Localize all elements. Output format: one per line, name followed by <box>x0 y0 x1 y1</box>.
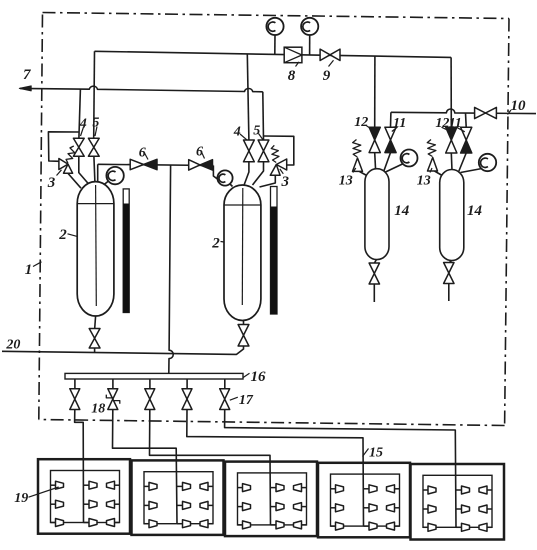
wire: routing valve3 to box3 <box>150 410 271 525</box>
wire: gauge connector right tank 14 <box>461 169 483 173</box>
svg-text:9: 9 <box>323 68 331 84</box>
wire: routing valve1 to box1 <box>75 410 84 523</box>
wire: transfer line 6 between vessel domes <box>98 164 214 165</box>
svg-text:7: 7 <box>23 67 31 83</box>
wire: relief loop right vessel <box>263 136 293 165</box>
pressure gauge left (on header) <box>266 18 283 35</box>
wire: valve12R bottom into right tank 14 <box>450 153 453 171</box>
gauge on left tank 14 <box>401 150 418 167</box>
valve 4 (right vessel) <box>244 140 255 151</box>
compartment box 3 outer wall <box>225 462 317 536</box>
pressure reducer 8 <box>284 47 302 63</box>
svg-text:19: 19 <box>14 491 28 506</box>
gauge on left vessel 2 <box>106 167 123 184</box>
wire: header T drop to valve 4 (right vessel) <box>247 54 249 140</box>
relief valve 3 (left vessel) <box>59 159 68 170</box>
wire: valve5L bottom / dip tube into left vessel <box>94 156 96 200</box>
wire: right tank 14 outlet open pipe <box>448 284 450 302</box>
wire: outlet line 10 with jump-over <box>391 109 536 114</box>
valve 12 (left pair, upper disc filled) <box>369 127 380 140</box>
svg-text:8: 8 <box>288 68 296 84</box>
wire: routing valve5 to box5 (line 15) <box>225 410 456 528</box>
spring of relief 13 right <box>427 140 436 157</box>
wire: header right corner drop to valve 12 (right pair) <box>450 57 452 127</box>
wire: left vessel bottom stem to valve <box>94 316 97 329</box>
svg-text:13: 13 <box>417 174 431 189</box>
enclosure boundary frame (dash-dot) <box>43 13 510 19</box>
manifold valve 3 <box>145 389 155 399</box>
wire: line 6 left corner down to left vessel dome <box>97 164 99 182</box>
svg-text:5: 5 <box>92 116 99 131</box>
relief valve 13 (right tank) <box>428 158 438 172</box>
compartment box 5 inner pipe loop <box>423 475 492 527</box>
wire: valve5R bottom to right vessel dome <box>253 162 264 185</box>
wire: valve11L bottom into left tank 14 <box>384 153 391 172</box>
valve 4 (left vessel) <box>73 138 84 147</box>
valve 5 (left vessel) <box>88 138 99 147</box>
level gauge column left vessel <box>123 189 129 313</box>
wire: drain line 20 <box>2 349 244 354</box>
svg-text:14: 14 <box>394 203 410 219</box>
svg-text:10: 10 <box>511 98 527 114</box>
wire: routing valve2 to box2 <box>113 410 178 524</box>
valve 5 (right vessel) <box>258 140 269 151</box>
compartment box 1 spray nozzles <box>51 481 120 526</box>
tank 14 (right auxiliary cylinder) <box>440 170 464 261</box>
compartment box 4 spray nozzles <box>331 485 400 530</box>
compartment box 2 outer wall <box>132 460 224 535</box>
compartment box 4 inner pipe loop <box>331 474 400 526</box>
manifold valve 5 (item 17) <box>220 389 230 399</box>
wire: relief loop left vessel <box>48 132 79 162</box>
valve 11 (right pair, lower disc filled) <box>461 127 472 140</box>
wire: gauge connector left tank 14 <box>386 164 404 173</box>
svg-text:16: 16 <box>251 369 267 385</box>
svg-text:15: 15 <box>369 446 383 461</box>
label leader ticks <box>29 60 512 497</box>
svg-text:12: 12 <box>354 115 368 130</box>
spring of relief valve 3 left <box>66 146 75 163</box>
gauge on right tank 14 <box>479 154 496 171</box>
wire: gauge stem left <box>274 35 276 55</box>
vessel 2 (right main extinguishant tank) <box>224 185 261 320</box>
pressure gauge right (on header) <box>301 18 318 35</box>
manifold valve 1 <box>70 389 80 399</box>
svg-text:3: 3 <box>281 174 290 190</box>
svg-text:2: 2 <box>211 236 220 252</box>
wire: left tank 14 outlet open pipe <box>373 284 375 302</box>
svg-text:2: 2 <box>58 227 67 243</box>
wire: right tank 14 bottom stem <box>449 261 452 264</box>
compartment box 4 outer wall <box>318 463 410 538</box>
drain valve under left vessel <box>89 329 100 339</box>
wire: line 6 right corner down toward right vessel gauge <box>213 166 220 182</box>
wire: line 10 corner drop to valve 11 (left pair) <box>390 112 392 127</box>
wire: vent line 7 with jump-overs <box>20 86 263 92</box>
svg-text:12: 12 <box>435 116 449 131</box>
spring of relief 13 left <box>353 140 361 158</box>
wire: valve11R bottom into right tank 14 <box>459 153 467 172</box>
svg-text:20: 20 <box>5 338 20 353</box>
compartment box 2 spray nozzles <box>144 482 213 527</box>
compartment box 5 spray nozzles <box>423 486 492 531</box>
wire: routing valve4 to box4 <box>187 410 364 527</box>
wire: line 10 T drop to valve 11 (right pair) <box>465 113 468 127</box>
wire: relief valve 3R outlet to dome <box>260 175 276 187</box>
wire: right vessel bottom stem to valve <box>243 321 245 325</box>
vessel 2 (left main extinguishant tank) <box>77 182 114 316</box>
compartment box 3 spray nozzles <box>238 484 307 529</box>
arrowhead on line 7 <box>19 86 31 91</box>
wire: relief valve 3L outlet diagonal to dome <box>68 173 81 188</box>
outlet valve under right tank 14 <box>444 263 454 274</box>
svg-text:18: 18 <box>91 402 105 417</box>
wire: header T drop to valve 12 (left pair) <box>374 56 376 127</box>
compartment box 2 inner pipe loop <box>144 472 213 524</box>
wire: valve12L bottom into left tank 14 <box>374 153 377 170</box>
wire: center feed from line 6 down to manifold with jump at line 20 <box>169 165 173 373</box>
wire: gauge connector right vessel <box>229 183 233 187</box>
relief valve 3 (right vessel) <box>276 159 286 170</box>
wire: gauge stem right <box>309 35 311 56</box>
wire: left vessel drain valve stem to line 20 <box>94 348 96 353</box>
dip tube right vessel <box>241 188 244 305</box>
outlet valve under left tank 14 <box>369 263 379 274</box>
wire: header left drop to valve 5 (left vessel) <box>93 51 96 138</box>
wire: relief 13L to left tank 14 <box>360 172 369 177</box>
svg-text:14: 14 <box>467 203 483 219</box>
check valve 6 (right) <box>189 160 200 170</box>
wire: manifold valve stems from distributor bar <box>74 379 76 389</box>
gauge on right vessel 2 <box>217 170 232 185</box>
compartment box 1 inner pipe loop <box>51 471 120 523</box>
tank 14 (left auxiliary cylinder) <box>365 169 389 260</box>
valve 9 <box>320 49 330 60</box>
relief valve 13 (left tank) <box>353 158 363 171</box>
wire: valve4R bottom to right vessel dome <box>244 162 249 187</box>
svg-text:13: 13 <box>339 174 353 189</box>
wire: left tank 14 bottom stem <box>374 260 376 264</box>
dip tube left vessel <box>95 185 98 306</box>
svg-text:4: 4 <box>233 125 241 140</box>
distributor bar 16 <box>65 373 243 379</box>
check valve 6 (left) <box>130 159 143 169</box>
wire: relief 13R to right tank 14 <box>435 171 444 176</box>
manifold valve 2 (item 18, with lever) <box>108 389 118 399</box>
svg-text:1: 1 <box>25 262 33 278</box>
compartment box 3 inner pipe loop <box>238 473 307 525</box>
svg-text:5: 5 <box>253 124 260 139</box>
spring of relief valve 3 right <box>271 145 279 162</box>
valve 12 (right pair, upper disc filled) <box>446 127 457 140</box>
wire: gauge connector left vessel <box>104 181 109 185</box>
compartment box 5 outer wall <box>411 464 505 540</box>
level gauge column right vessel <box>271 187 278 315</box>
svg-text:17: 17 <box>239 393 254 408</box>
valve 11 (left pair, lower disc filled) <box>385 127 396 140</box>
compartment box 1 outer wall <box>38 459 130 534</box>
item number labels <box>5 67 526 506</box>
wire: line 7 T drop to valve 4 (left vessel) <box>79 89 81 138</box>
manifold valve 4 <box>182 389 192 399</box>
drain valve under right vessel <box>238 325 249 336</box>
wire: main header from left corner to right corner <box>95 51 452 57</box>
wire: line 7 right corner drop to valve 5 (right vessel) <box>262 92 265 140</box>
valve 10 <box>475 107 486 118</box>
wire: right vessel drain valve stem down <box>243 346 245 350</box>
wire: valve4L bottom to left vessel dome <box>79 156 90 185</box>
svg-text:3: 3 <box>47 175 56 191</box>
